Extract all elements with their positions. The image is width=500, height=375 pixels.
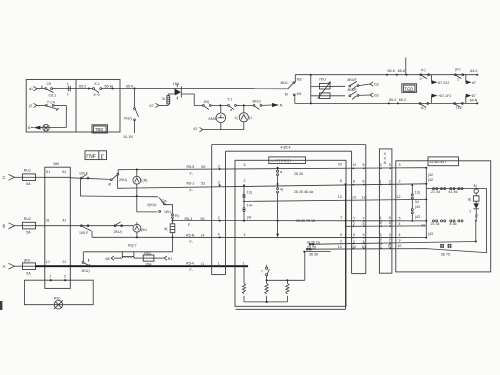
svg-text:20: 20 xyxy=(338,163,342,167)
svg-text:9: 9 xyxy=(340,233,342,237)
terminal G2 lower xyxy=(359,93,379,98)
svg-text:(KU: (KU xyxy=(141,228,148,232)
svg-text:—.ΥΓ∏ΥΚ∏Υ: —.ΥΓ∏ΥΚ∏Υ xyxy=(271,159,293,163)
svg-text:3: 3 xyxy=(380,233,382,237)
svg-text:36 36: 36 36 xyxy=(309,253,318,257)
svg-text:2: 2 xyxy=(380,239,382,243)
svg-text:53: 53 xyxy=(201,182,205,186)
svg-text:C6.1: C6.1 xyxy=(49,93,57,97)
wire 3KU up to RQ line xyxy=(82,252,84,262)
bus B8 xyxy=(306,248,486,252)
svg-text:5: 5 xyxy=(389,216,391,220)
switch C4 xyxy=(46,100,59,110)
svg-text:a: a xyxy=(230,108,232,112)
wire selector down to bus2 xyxy=(116,176,118,189)
wire C row to switch xyxy=(70,178,110,180)
wire C row in box xyxy=(45,176,71,178)
chain M x477 xyxy=(468,184,479,222)
switch 100F B-row xyxy=(79,225,91,235)
wire to switch C4 xyxy=(37,104,46,106)
svg-text:8KU.: 8KU. xyxy=(281,81,289,85)
svg-text:T.1: T.1 xyxy=(228,97,233,101)
TBD box xyxy=(92,125,108,133)
svg-text:2KU): 2KU) xyxy=(114,230,122,234)
svg-text:(5: (5 xyxy=(388,244,391,248)
svg-text:8: 8 xyxy=(363,163,365,167)
svg-text:C: C xyxy=(3,175,6,180)
diode 1N4 xyxy=(173,82,182,100)
selector 8KU M2/M2 xyxy=(281,78,302,97)
bus T1 top xyxy=(295,74,477,76)
switch 8KU (N branch) xyxy=(253,100,262,110)
svg-text:2J: 2J xyxy=(62,260,66,264)
right box title xyxy=(428,157,459,166)
svg-text:F-: F- xyxy=(190,172,194,176)
svg-text:RU1: RU1 xyxy=(24,169,31,173)
svg-text:K.1: K.1 xyxy=(95,82,100,86)
svg-text:65-M: 65-M xyxy=(105,84,113,88)
branch G2 upper wire xyxy=(311,85,345,87)
wire M2 lower to bus T2 xyxy=(294,95,296,104)
switch T.1 xyxy=(228,97,237,111)
wire K1 to 65-M xyxy=(102,88,135,90)
connector box XXN xyxy=(379,149,392,273)
svg-text:4: 4 xyxy=(218,233,220,237)
svg-text:100.F: 100.F xyxy=(79,231,89,235)
wire a1 to switch C5 xyxy=(37,88,45,90)
svg-text:2: 2 xyxy=(64,275,66,279)
switch 3KU on bus5 xyxy=(81,259,90,273)
svg-text:C4: C4 xyxy=(50,100,55,104)
svg-text:2~: 2~ xyxy=(420,77,424,81)
CJK label bottom (xuan) xyxy=(440,244,451,248)
svg-text:34: 34 xyxy=(415,200,419,204)
terminal a1 xyxy=(29,87,37,92)
terminal 67 upper xyxy=(150,103,159,108)
connector strip left xyxy=(212,145,226,275)
svg-text:21 34: 21 34 xyxy=(431,222,440,226)
bus B5b xyxy=(346,225,426,227)
svg-text:67-23J: 67-23J xyxy=(438,81,449,85)
big box title box xyxy=(269,157,306,164)
node 65-6 pair on T1 xyxy=(386,58,408,76)
right box interior vertical x426 xyxy=(421,167,433,239)
svg-text:(1: (1 xyxy=(249,116,252,120)
wire to bus3 node xyxy=(172,218,174,223)
svg-text:5: 5 xyxy=(363,222,365,226)
svg-text:65-9: 65-9 xyxy=(126,84,133,88)
chain bottom link xyxy=(475,221,477,242)
svg-text:3: 3 xyxy=(218,164,220,168)
resistor leg 1 xyxy=(242,266,245,302)
svg-text:64-2: 64-2 xyxy=(470,69,477,73)
svg-text:R5-N: R5-N xyxy=(186,233,195,237)
svg-text:26 26 75 16: 26 26 75 16 xyxy=(296,219,315,223)
svg-text:T: T xyxy=(353,216,356,220)
resistor net top wire xyxy=(267,279,305,281)
svg-text:(KJ: (KJ xyxy=(455,67,461,71)
lamp loop box xyxy=(24,279,93,305)
bus B7 xyxy=(309,241,477,246)
svg-text:S1: S1 xyxy=(46,170,50,174)
svg-text:M: M xyxy=(285,93,288,97)
svg-text:68: 68 xyxy=(106,257,110,261)
svg-text:9: 9 xyxy=(353,233,355,237)
svg-text:26 26: 26 26 xyxy=(294,172,303,176)
svg-text:TBD: TBD xyxy=(95,127,103,132)
svg-text:RH2: RH2 xyxy=(144,251,151,255)
node 65-2 pair on T2 xyxy=(388,98,406,105)
box1 pin numbers xyxy=(352,163,366,249)
narrow connector box 1 xyxy=(352,145,366,274)
loom wire outer top xyxy=(212,144,366,146)
svg-text:RJ: RJ xyxy=(168,257,173,261)
svg-text:TGD: TGD xyxy=(404,87,413,92)
arrow terminal 67 64-N xyxy=(466,94,479,105)
svg-text:1: 1 xyxy=(243,261,245,265)
svg-text:10: 10 xyxy=(398,244,402,248)
terminal C xyxy=(3,174,23,180)
svg-text:X: X xyxy=(384,152,387,156)
svg-text:2(KU): 2(KU) xyxy=(147,203,156,207)
right box left pins xyxy=(397,163,402,248)
resistor 7k vertical xyxy=(162,96,170,106)
interior vertical x244 xyxy=(243,184,245,221)
svg-text:X5: X5 xyxy=(201,165,205,169)
svg-text:(7: (7 xyxy=(475,214,478,218)
svg-text:1: 1 xyxy=(218,262,220,266)
contact row mid (21 34 8 36) xyxy=(431,220,464,226)
svg-text:1(: 1( xyxy=(235,116,239,120)
svg-text:2: 2 xyxy=(399,179,401,183)
svg-text:5A: 5A xyxy=(26,271,31,275)
svg-text:R5-3: R5-3 xyxy=(185,217,193,221)
arrow terminal N xyxy=(262,103,283,108)
arrow terminal 67-23J xyxy=(432,75,450,85)
arrow terminal B xyxy=(28,126,41,131)
svg-text:A: A xyxy=(3,264,6,269)
connector ticks t-t xyxy=(67,82,70,96)
svg-text:8(: 8( xyxy=(468,198,472,202)
svg-text:8(: 8( xyxy=(164,227,168,231)
wire JN1 to node xyxy=(211,104,228,106)
wire resistor to bus4 xyxy=(172,233,174,252)
wire fuse to BM xyxy=(36,176,45,178)
svg-text:26 26 46 4a: 26 26 46 4a xyxy=(294,190,313,194)
contact chain x266 xyxy=(262,265,270,282)
svg-text:G2: G2 xyxy=(374,83,379,87)
interior vertical x277 xyxy=(276,167,279,238)
junction vertical x311 xyxy=(310,74,312,105)
wire B switch to bus4 xyxy=(91,231,93,237)
switch 2KU chain xyxy=(147,198,167,213)
svg-text:13: 13 xyxy=(338,195,342,199)
coil RQ xyxy=(122,256,134,257)
meter K2 xyxy=(235,105,253,129)
svg-text:KM4: KM4 xyxy=(209,117,216,121)
svg-text:14+: 14+ xyxy=(247,203,253,207)
svg-text:67: 67 xyxy=(150,104,154,108)
wire tap bus2 down y196 xyxy=(80,179,158,198)
svg-text:RQ-7: RQ-7 xyxy=(128,243,137,247)
svg-text:1J: 1J xyxy=(46,260,50,264)
svg-text:9: 9 xyxy=(363,233,365,237)
big box (control unit) xyxy=(235,160,346,306)
svg-text:RU): RU) xyxy=(54,297,60,301)
svg-text:A.): A.) xyxy=(421,68,426,72)
svg-text:8: 8 xyxy=(353,179,355,183)
svg-text:∥': ∥' xyxy=(100,154,104,160)
node KM4 top xyxy=(219,104,221,106)
node 65-9 xyxy=(126,84,136,89)
svg-text:12: 12 xyxy=(397,195,401,199)
stub y251 with node xyxy=(303,251,330,253)
svg-text:N: N xyxy=(384,161,387,165)
branch 7KU vertical xyxy=(134,89,136,134)
bus labels R5-1 xyxy=(187,181,206,192)
bus labels R5-4 xyxy=(186,262,204,272)
terminal RJ right xyxy=(154,256,172,261)
terminal 67 lower xyxy=(194,127,203,132)
svg-text:R): R) xyxy=(175,214,179,218)
NF mini box xyxy=(85,151,107,160)
svg-text:G2: G2 xyxy=(374,94,379,98)
svg-text:t-: t- xyxy=(67,92,70,96)
riser x305 to resistor net xyxy=(304,252,306,281)
svg-text:(4: (4 xyxy=(201,234,204,238)
resistor net bottom wire xyxy=(244,301,287,303)
svg-text:5A: 5A xyxy=(26,182,31,186)
svg-text:M2: M2 xyxy=(297,78,302,82)
svg-text:7KU): 7KU) xyxy=(124,117,132,121)
svg-text:2: 2 xyxy=(389,179,391,183)
svg-text:X: X xyxy=(384,157,387,161)
svg-text:5: 5 xyxy=(399,216,401,220)
svg-text:2: 2 xyxy=(353,222,355,226)
svg-text:8KUF: 8KUF xyxy=(348,88,358,92)
stub y212 xyxy=(137,196,158,212)
switch C5 xyxy=(41,82,56,97)
bus5 bold A row xyxy=(36,265,249,267)
svg-text:T: T xyxy=(340,216,343,220)
switch TL2 on T2 xyxy=(454,103,464,110)
svg-text:1N4: 1N4 xyxy=(173,82,180,86)
contact column x412 xyxy=(411,184,420,222)
terminal G2 upper xyxy=(359,82,379,87)
terminal A xyxy=(3,263,23,269)
node K2 top xyxy=(243,104,245,106)
svg-text:(43: (43 xyxy=(415,205,420,209)
bus3b inner xyxy=(244,199,426,201)
XXN pin dots xyxy=(380,167,391,249)
svg-text:13): 13) xyxy=(415,190,420,194)
wire 67 lower to K2 xyxy=(203,129,244,131)
svg-text:64-N: 64-N xyxy=(470,98,478,102)
svg-text:(2: (2 xyxy=(29,104,32,108)
right box amplifier xyxy=(396,161,491,272)
svg-text:4: 4 xyxy=(380,222,382,226)
svg-text:4: 4 xyxy=(399,233,401,237)
terminal B xyxy=(3,223,23,229)
BM pin labels xyxy=(46,170,67,278)
svg-text:5: 5 xyxy=(389,163,391,167)
svg-text:((R): ((R) xyxy=(141,178,147,182)
svg-text:9: 9 xyxy=(399,238,401,242)
connector left pin numbers xyxy=(218,164,220,265)
svg-text:f: f xyxy=(262,269,263,273)
svg-text:RU2: RU2 xyxy=(24,217,31,221)
arrow terminal 67-1FJ xyxy=(432,94,452,104)
svg-text:5: 5 xyxy=(244,163,246,167)
svg-text:36 75: 36 75 xyxy=(441,253,450,257)
wire resistor to diode anode xyxy=(168,89,175,96)
svg-text:1: 1 xyxy=(380,179,382,183)
svg-text:21 34: 21 34 xyxy=(431,190,440,194)
meter circle B-row xyxy=(133,222,147,238)
svg-text:C5: C5 xyxy=(47,82,52,86)
svg-text:(43: (43 xyxy=(415,215,420,219)
lamp RU xyxy=(54,297,63,310)
svg-text:2: 2 xyxy=(47,100,49,104)
resistor leg 3 xyxy=(286,279,289,302)
wire 65-9 to diode xyxy=(135,88,289,90)
TGD box xyxy=(402,84,417,93)
bus4 R5-N xyxy=(92,236,426,238)
svg-text:(2: (2 xyxy=(379,244,382,248)
svg-text:65-2: 65-2 xyxy=(79,84,86,88)
svg-text:R5-1: R5-1 xyxy=(187,181,195,185)
svg-text:14ΤΔΛΤΔΠ: 14ΤΔΛΤΔΠ xyxy=(429,160,446,164)
bus2 R5-1 xyxy=(117,184,426,189)
svg-text:F-: F- xyxy=(190,268,194,272)
svg-text:4: 4 xyxy=(244,233,246,237)
svg-text:7k: 7k xyxy=(162,97,166,101)
svg-text:(42: (42 xyxy=(428,173,433,177)
wire coil to fuse RH2 xyxy=(134,257,143,259)
svg-text:10-1N: 10-1N xyxy=(123,135,133,139)
svg-text:2: 2 xyxy=(340,240,342,244)
big box left pins xyxy=(243,163,246,265)
svg-text:4.85.4: 4.85.4 xyxy=(281,145,291,149)
wire chain corner xyxy=(164,205,172,214)
riser x345 to bottom xyxy=(236,184,346,309)
lamp B row3 xyxy=(43,124,50,131)
wire T1 to K2 node xyxy=(236,104,253,106)
wire M2 upper to bus T1 xyxy=(294,75,296,83)
switch K1 xyxy=(93,82,102,97)
resistor R( chain xyxy=(164,224,174,233)
meter circle C-row xyxy=(133,169,148,197)
svg-text:M: M xyxy=(474,184,477,188)
svg-text:M2: M2 xyxy=(297,92,302,96)
svg-text:7KU: 7KU xyxy=(319,78,326,82)
wire C4 to down corner xyxy=(54,105,66,127)
svg-text:BM: BM xyxy=(54,162,59,166)
svg-text:F-: F- xyxy=(190,188,194,192)
arrow terminal 67 top xyxy=(466,75,476,85)
svg-text:R5-5: R5-5 xyxy=(187,165,195,169)
svg-text:TL2: TL2 xyxy=(456,106,462,110)
svg-text:a: a xyxy=(280,170,282,174)
svg-text:1: 1 xyxy=(380,216,382,220)
fuse RU2 xyxy=(23,217,36,235)
svg-text:67: 67 xyxy=(194,127,198,131)
svg-text:3: 3 xyxy=(389,233,391,237)
svg-text:1KU.: 1KU. xyxy=(164,210,172,214)
loom wire inner top xyxy=(226,150,352,152)
svg-text:(RU: (RU xyxy=(24,258,31,262)
bus labels R5-N xyxy=(186,233,204,244)
svg-text:t-: t- xyxy=(67,82,70,86)
svg-text:(1: (1 xyxy=(201,262,204,266)
svg-text:F-: F- xyxy=(188,223,192,227)
svg-text:65-6: 65-6 xyxy=(388,69,395,73)
branch G2 lower wire xyxy=(311,95,345,97)
svg-text:13: 13 xyxy=(352,195,356,199)
svg-text:3: 3 xyxy=(399,163,401,167)
row3 wire to lamp xyxy=(40,127,66,129)
svg-text:5A: 5A xyxy=(26,231,31,235)
svg-text:4): 4) xyxy=(280,187,283,191)
switch KJ on T1 xyxy=(420,68,430,81)
box1 pin dots xyxy=(353,168,365,250)
bus labels R5-5 xyxy=(187,165,206,176)
svg-text:8: 8 xyxy=(41,85,43,89)
svg-text:(42: (42 xyxy=(428,178,433,182)
svg-text:3: 3 xyxy=(218,181,220,185)
svg-text:B: B xyxy=(3,224,6,229)
svg-text:A.): A.) xyxy=(421,106,426,110)
svg-text:N: N xyxy=(280,104,283,108)
svg-text:8: 8 xyxy=(363,179,365,183)
svg-text:T: T xyxy=(363,216,366,220)
meter KM4 xyxy=(209,105,226,129)
wire diode out xyxy=(181,94,202,105)
fuse 1RU xyxy=(23,258,36,275)
connector left pin dots xyxy=(219,168,221,238)
svg-text:(43: (43 xyxy=(428,232,433,236)
wire B row xyxy=(70,225,133,227)
bus1 R5-5 xyxy=(118,168,426,170)
svg-text:8 36: 8 36 xyxy=(450,222,457,226)
rheostat 7KU xyxy=(318,78,331,99)
relay box enclosure (top-left) xyxy=(26,80,120,133)
big box right pins xyxy=(338,163,343,249)
bus labels R5-3 xyxy=(185,217,205,227)
switch 8KU2 upper xyxy=(348,78,359,89)
svg-text:5: 5 xyxy=(380,163,382,167)
scan smudge left edge xyxy=(0,301,2,310)
svg-text:9~0: 9~0 xyxy=(94,93,100,97)
svg-text:6J: 6J xyxy=(62,170,66,174)
labels 13) 14+ (4) xyxy=(247,191,253,220)
contact 1KU xyxy=(164,210,179,218)
switch KJ on T2 xyxy=(419,103,429,110)
svg-text:+67-1FJ: +67-1FJ xyxy=(438,94,451,98)
switch 8KU2 lower xyxy=(348,88,359,99)
node 64-2 xyxy=(470,69,478,76)
node 65-2 xyxy=(79,84,90,89)
svg-text:50: 50 xyxy=(201,217,205,221)
svg-text:[2a: [2a xyxy=(162,199,167,203)
fuse RU1 xyxy=(23,169,36,187)
svg-text:1: 1 xyxy=(457,77,459,81)
node 65-M xyxy=(105,84,114,89)
big box interior texts xyxy=(294,172,320,257)
RQ upper line xyxy=(84,252,173,258)
svg-text:10: 10 xyxy=(338,245,342,249)
bus3 R5-3 xyxy=(173,220,427,222)
